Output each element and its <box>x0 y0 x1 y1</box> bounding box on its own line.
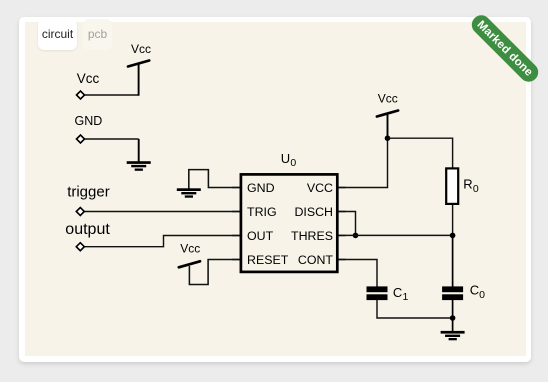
junction: DISCH/THRES <box>353 233 359 239</box>
label U0 <box>281 151 297 169</box>
ground symbol (under GND port) <box>127 161 151 171</box>
svg-text:TRIG: TRIG <box>247 205 277 219</box>
svg-text:THRES: THRES <box>291 229 333 243</box>
svg-text:Vcc: Vcc <box>131 42 151 56</box>
svg-text:VCC: VCC <box>307 181 333 195</box>
svg-text:RESET: RESET <box>247 253 289 267</box>
ground symbol (left of IC) <box>177 188 201 197</box>
capacitor C1 <box>367 286 388 300</box>
port GND diamond <box>77 135 85 143</box>
resistor R0 <box>446 168 458 204</box>
capacitor C0 <box>442 286 463 300</box>
label C0 <box>470 283 485 301</box>
svg-text:Vcc: Vcc <box>77 71 100 86</box>
svg-text:GND: GND <box>75 114 103 128</box>
ground symbol (bottom-right) <box>441 331 465 340</box>
ui ribbon: Marked done <box>468 11 542 85</box>
wire: Vcc supply vertical lead <box>138 63 140 96</box>
power supply Vcc (mid) flag <box>179 261 200 267</box>
wire: GND port to ground <box>83 138 139 140</box>
ui tab: pcb <box>83 19 112 50</box>
wire: Vcc supply (top-right) vertical lead <box>387 114 389 140</box>
op-amp/timer IC U0 body <box>241 174 337 272</box>
svg-text:Vcc: Vcc <box>378 91 398 105</box>
wire: output to OUT pin <box>83 236 240 247</box>
svg-text:U: U <box>281 151 290 166</box>
wire: GND vertical lead to ground symbol <box>138 139 140 162</box>
IC U0 pin stubs left <box>232 188 241 260</box>
svg-text:output: output <box>65 221 110 238</box>
power supply Vcc (top-left) flag <box>128 61 149 67</box>
port trigger diamond <box>76 208 84 216</box>
wire: R0 bottom to THRES node <box>452 205 454 235</box>
wire: trigger to TRIG pin <box>83 211 240 213</box>
svg-text:OUT: OUT <box>247 229 274 243</box>
svg-text:DISCH: DISCH <box>294 205 333 219</box>
junction: THRES/R0/C0 <box>450 233 456 239</box>
wire: Vcc port to Vcc supply lead <box>83 94 139 96</box>
label C1 <box>393 285 409 303</box>
wire: THRES node down to C0 <box>452 235 454 287</box>
svg-text:Vcc: Vcc <box>180 241 200 255</box>
svg-text:0: 0 <box>473 183 479 195</box>
wire: DISCH pin to THRES node <box>338 212 356 236</box>
svg-text:C: C <box>470 283 479 298</box>
svg-text:CONT: CONT <box>298 253 334 267</box>
wire: VCC pin to top Vcc node <box>338 138 388 187</box>
junction: C0/C1 bottom node <box>450 315 456 321</box>
ui tab: circuit <box>38 19 77 50</box>
label R0 <box>463 176 479 195</box>
wire: Vcc node to R0 top <box>388 138 453 167</box>
svg-text:trigger: trigger <box>67 184 110 201</box>
junction: Vcc node <box>385 135 391 141</box>
power supply Vcc (top-right) flag <box>377 111 398 117</box>
port Vcc diamond <box>77 91 85 99</box>
wire: CONT pin to C1 top <box>338 260 377 288</box>
svg-text:GND: GND <box>247 181 275 195</box>
wire: C1 bottom to ground node <box>377 300 453 319</box>
svg-text:C: C <box>393 285 402 300</box>
svg-text:0: 0 <box>290 157 296 169</box>
svg-text:R: R <box>463 176 472 191</box>
IC U0 pin stubs right <box>337 188 346 260</box>
svg-text:0: 0 <box>479 289 485 301</box>
wire: RESET pin to Vcc supply (mid) <box>189 260 240 285</box>
wire: GND pin to ground symbol (left of IC) <box>189 170 240 189</box>
svg-text:1: 1 <box>403 291 409 303</box>
wire: C0 bottom to ground <box>452 300 454 332</box>
port output diamond <box>76 243 84 251</box>
wire: THRES pin to right node <box>338 234 453 236</box>
